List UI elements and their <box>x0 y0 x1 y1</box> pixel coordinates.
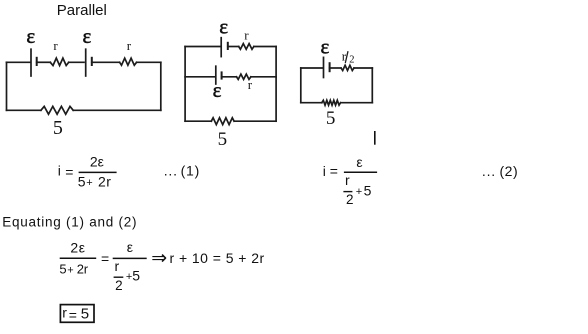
circuit 1 bottom wire right segment <box>73 109 161 111</box>
svg-text:ε: ε <box>82 24 91 48</box>
svg-text:...: ... <box>164 163 178 179</box>
wire R4 to right side <box>254 46 276 48</box>
wire R2 to right side <box>137 61 161 63</box>
resistor R6 (5 ohm, circuit 2 bottom) <box>211 118 234 125</box>
svg-text:5: 5 <box>326 108 336 129</box>
svg-text:=: = <box>65 164 73 180</box>
svg-text:i =: i = <box>323 163 338 179</box>
svg-text:2r: 2r <box>98 173 111 189</box>
eq1 fraction bar <box>79 171 117 173</box>
svg-text:=: = <box>69 307 77 323</box>
text cursor bar <box>374 131 376 145</box>
circuit 2 right side wire <box>275 47 277 122</box>
circuit 3 left side wire <box>300 68 302 103</box>
eq2 fraction bar <box>344 171 377 173</box>
circuit 3 bottom wire left segment <box>301 102 322 104</box>
circuit 3 bottom wire right segment <box>341 102 373 104</box>
circuit 2 bottom wire right segment <box>234 120 276 122</box>
svg-text:2r: 2r <box>77 262 89 277</box>
svg-text:r: r <box>345 172 350 188</box>
svg-text:+: + <box>356 186 362 198</box>
svg-text:5: 5 <box>132 268 140 284</box>
svg-text:+: + <box>67 265 73 277</box>
svg-text:2: 2 <box>115 278 123 293</box>
svg-text:...: ... <box>482 163 496 179</box>
answer box r = 5 <box>60 305 94 323</box>
svg-text:ε: ε <box>219 15 228 39</box>
svg-text:2: 2 <box>349 54 354 65</box>
circuit 2 top wire left segment <box>185 46 220 48</box>
svg-text:5: 5 <box>78 173 86 189</box>
circuit 1 bottom wire left segment <box>7 109 41 111</box>
svg-text:ε: ε <box>321 35 330 59</box>
svg-text:r: r <box>244 28 249 43</box>
circuit 1 top wire left segment <box>7 61 31 63</box>
svg-text:r: r <box>53 38 58 53</box>
wire E4 to R5 <box>222 76 237 78</box>
circuit 2 left side wire <box>184 47 186 122</box>
wire R7 to right side <box>354 67 372 69</box>
svg-text:r: r <box>248 77 253 92</box>
eq3 fraction bar 2 <box>113 257 147 259</box>
svg-text:ε: ε <box>26 24 35 48</box>
eq3 small fraction bar r/2 (rhs) <box>114 276 124 278</box>
resistor R1 (r, circuit 1 top) <box>50 58 68 65</box>
equation 3: 2e/(5+2r) = e/(r/2+5) => r + 10 = 5 + 2r <box>59 239 264 293</box>
svg-text:(1): (1) <box>181 163 201 179</box>
circuit 1 left side wire <box>6 62 8 110</box>
circuit 2 bottom wire left segment <box>185 120 211 122</box>
battery E4 cell (circuit 2 middle) <box>216 66 222 84</box>
svg-text:r: r <box>62 305 67 321</box>
circuit 3 right side wire <box>371 68 373 103</box>
equation 1: i = 2e/(5+2r) <box>58 154 200 190</box>
battery E3 cell (circuit 2 top) <box>221 38 228 57</box>
svg-text:Parallel: Parallel <box>57 2 107 19</box>
battery E2 cell <box>86 49 92 76</box>
svg-text:r: r <box>115 258 120 274</box>
equation 2: i = e/(r/2+5) <box>323 154 518 207</box>
circuit 3 top wire left segment <box>301 67 323 69</box>
eq2 small fraction bar r/2 <box>343 191 352 193</box>
wire E1 to R1 <box>37 61 51 63</box>
svg-text:5: 5 <box>59 262 66 277</box>
resistor R7 (r/2, circuit 3 top) <box>341 65 354 70</box>
svg-text:5: 5 <box>53 117 63 139</box>
resistor R2 (r, circuit 1 top) <box>120 58 137 65</box>
svg-text:i: i <box>58 163 61 179</box>
wire E5 to R7 <box>330 67 341 69</box>
svg-text:=: = <box>101 250 109 266</box>
svg-text:(2): (2) <box>500 163 519 179</box>
circuit 1 right side wire <box>160 62 162 110</box>
svg-text:5: 5 <box>81 305 89 322</box>
battery E1 cell <box>31 49 37 76</box>
wire R1 to E2 <box>69 61 84 63</box>
battery E5 cell (circuit 3) <box>324 57 330 77</box>
svg-text:ε: ε <box>127 239 133 255</box>
svg-text:5: 5 <box>364 182 372 198</box>
svg-text:2ε: 2ε <box>70 239 85 255</box>
svg-text:Equating (1) and (2): Equating (1) and (2) <box>2 214 137 229</box>
svg-text:r: r <box>127 38 132 53</box>
resistor R8 (5 ohm, circuit 3 bottom) <box>322 100 341 105</box>
circuit 2 middle wire left segment <box>185 76 215 78</box>
svg-text:ε: ε <box>356 154 362 170</box>
resistor R5 (r, circuit 2 middle) <box>237 74 251 79</box>
svg-text:ε: ε <box>213 78 222 102</box>
svg-text:5: 5 <box>218 129 228 150</box>
wire E2 to R2 <box>92 61 120 63</box>
svg-text:+: + <box>86 177 92 189</box>
wire E3 to R4 <box>228 46 239 48</box>
resistor R4 (r, circuit 2 top) <box>239 44 254 50</box>
resistor R3 (5 ohm, circuit 1 bottom) <box>41 106 73 114</box>
svg-text:2: 2 <box>346 192 354 207</box>
wire R5 to right side <box>251 76 276 78</box>
svg-text:r + 10 = 5 + 2r: r + 10 = 5 + 2r <box>170 250 265 266</box>
svg-text:⇒: ⇒ <box>151 248 167 269</box>
eq3 fraction bar 1 <box>60 257 96 259</box>
label r/2 of R7 <box>342 49 355 66</box>
svg-text:2ε: 2ε <box>90 154 104 170</box>
